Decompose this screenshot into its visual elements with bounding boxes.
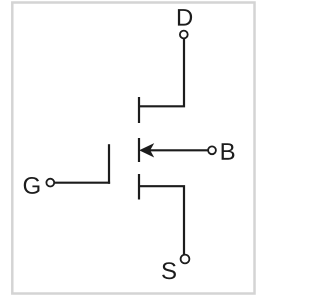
transistor Q1 gate bar xyxy=(108,144,110,184)
transistor Q1 channel segment, bulk side xyxy=(138,138,140,162)
terminal pin B (open circle) xyxy=(208,146,216,154)
terminal pin D (open circle) xyxy=(180,31,188,39)
label D (drain) xyxy=(178,9,192,26)
terminal pin S (open circle) xyxy=(181,255,190,264)
wire: drain lead xyxy=(139,39,184,107)
transistor Q1 channel segment, source side xyxy=(138,174,140,200)
terminal pin G (open circle) xyxy=(46,179,54,187)
label B (bulk) xyxy=(222,143,235,160)
wire: gate lead to terminal G xyxy=(54,182,110,184)
label S (source) xyxy=(162,262,176,279)
wire: source lead xyxy=(139,186,184,254)
label G (gate) xyxy=(24,177,40,194)
transistor Q1 bulk arrow (pointing into channel) xyxy=(140,144,153,156)
wire: bulk lead from arrow to terminal B xyxy=(150,149,208,151)
transistor Q1: N-channel MOSFET (4-terminal) channel segment, drain side xyxy=(138,97,140,123)
